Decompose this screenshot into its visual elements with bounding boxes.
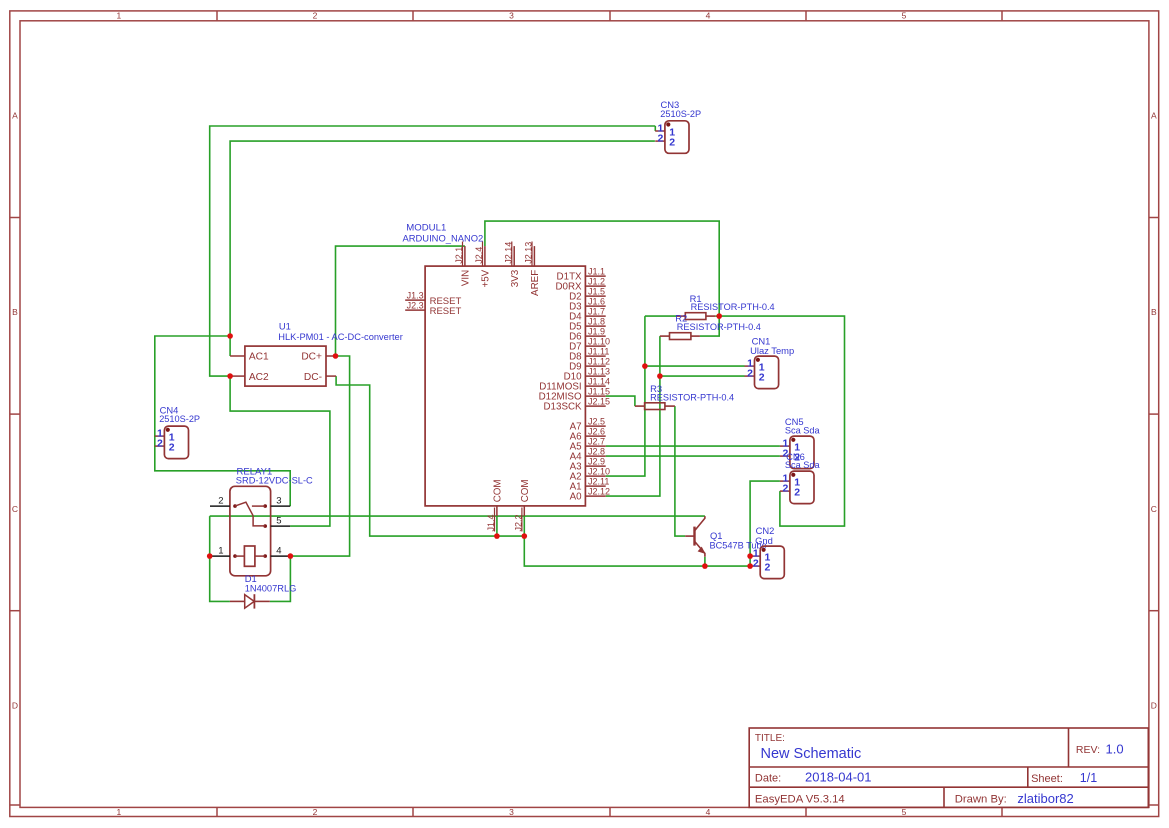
junction <box>227 373 233 379</box>
junction <box>716 313 722 319</box>
svg-text:4: 4 <box>706 807 711 817</box>
svg-text:1: 1 <box>218 545 223 556</box>
connector CN2 Gnd <box>760 546 784 579</box>
wire R1 node to CN6.2 <box>719 316 844 526</box>
svg-text:2510S-2P: 2510S-2P <box>660 109 701 119</box>
pin DC+ <box>326 355 336 357</box>
pin J2.13 AREF <box>533 246 535 266</box>
pin J2.1 VIN <box>464 246 466 266</box>
svg-text:J2.2: J2.2 <box>514 514 524 531</box>
pin DC- <box>326 375 336 377</box>
svg-text:RESISTOR-PTH-0.4: RESISTOR-PTH-0.4 <box>691 302 775 312</box>
pin J2.2 COM <box>523 506 525 516</box>
pin J1.2 D0RX <box>585 285 605 287</box>
svg-text:2: 2 <box>759 371 765 383</box>
junction <box>702 563 708 569</box>
svg-text:RESISTOR-PTH-0.4: RESISTOR-PTH-0.4 <box>650 392 734 402</box>
svg-text:J1.9: J1.9 <box>588 327 605 337</box>
svg-text:J1.13: J1.13 <box>588 367 610 377</box>
svg-text:J1.12: J1.12 <box>588 357 610 367</box>
junction <box>333 353 339 359</box>
svg-text:1: 1 <box>117 10 122 20</box>
svg-text:Drawn By:: Drawn By: <box>955 794 1007 806</box>
junction <box>642 363 648 369</box>
svg-text:RESISTOR-PTH-0.4: RESISTOR-PTH-0.4 <box>677 322 761 332</box>
svg-text:TITLE:: TITLE: <box>755 733 785 744</box>
svg-text:RESET: RESET <box>430 306 462 317</box>
svg-text:J2.6: J2.6 <box>588 427 605 437</box>
wire VIN to DC+ <box>336 246 465 356</box>
svg-text:2: 2 <box>218 495 223 506</box>
connector CN5 Sca Sda <box>790 436 814 469</box>
pin J1.7 D4 <box>585 315 605 317</box>
pin J1.3 RESET <box>405 299 425 301</box>
svg-text:2: 2 <box>669 136 675 148</box>
pin J2.7 A5 <box>585 445 605 447</box>
svg-text:VIN: VIN <box>461 270 472 286</box>
relay coil <box>233 554 237 558</box>
svg-text:2: 2 <box>783 483 789 495</box>
svg-text:2: 2 <box>313 10 318 20</box>
relay pin 2 <box>210 505 230 507</box>
pin J2.8 A4 <box>585 455 605 457</box>
connector CN6 Sca Sda <box>790 471 814 504</box>
svg-text:zlatibor82: zlatibor82 <box>1017 791 1073 806</box>
svg-text:1N4007RLG: 1N4007RLG <box>245 583 297 593</box>
svg-text:A: A <box>1151 111 1157 121</box>
op-amp U? none: module MODUL1 ARDUINO_NANO2 body <box>425 266 585 506</box>
wire COM J2.2 drop <box>523 516 525 536</box>
svg-text:J1.11: J1.11 <box>588 347 609 357</box>
pin J1.11 D8 <box>585 355 605 357</box>
svg-text:J1.8: J1.8 <box>588 317 605 327</box>
pin J2.12 A0 <box>585 495 605 497</box>
relay pin 1 <box>210 555 230 557</box>
wire A4 to CN5.2 <box>606 455 780 457</box>
svg-text:J2.13: J2.13 <box>524 242 534 264</box>
svg-text:Gnd: Gnd <box>755 535 773 546</box>
pin J1.8 D5 <box>585 325 605 327</box>
wire A0 riser to R2 left <box>606 336 660 496</box>
wire CN1.2 <box>660 375 745 377</box>
wire R3 to Q1 base <box>675 406 685 536</box>
svg-text:J1.7: J1.7 <box>588 307 605 317</box>
resistor R3 <box>635 405 645 407</box>
junction <box>207 553 213 559</box>
svg-text:J1.6: J1.6 <box>588 297 605 307</box>
svg-text:D13SCK: D13SCK <box>543 402 582 413</box>
svg-text:A0: A0 <box>570 492 583 503</box>
relay pin 3 <box>271 505 291 507</box>
pin J2.6 A6 <box>585 435 605 437</box>
pin J1.15 D12MISO <box>585 395 605 397</box>
pin J1.10 D7 <box>585 345 605 347</box>
pin J2.15 D13SCK <box>585 405 605 407</box>
svg-text:Sca Sda: Sca Sda <box>785 425 821 435</box>
svg-text:B: B <box>12 307 18 317</box>
svg-text:J2.9: J2.9 <box>588 457 605 467</box>
svg-text:C: C <box>12 504 18 514</box>
svg-text:Date:: Date: <box>755 773 781 785</box>
wire down to D1 anode <box>210 516 230 601</box>
svg-text:2: 2 <box>313 807 318 817</box>
wire CN1.1 <box>645 365 745 367</box>
wire DC+ to relay pin4 <box>290 356 349 556</box>
title block <box>749 728 1148 807</box>
pin J1.1 D1TX <box>585 275 605 277</box>
svg-text:2: 2 <box>794 486 800 498</box>
svg-text:D: D <box>12 700 18 710</box>
wire node to AC1 <box>229 336 231 356</box>
pin J2.10 A2 <box>585 475 605 477</box>
svg-text:J1.1: J1.1 <box>588 267 605 277</box>
svg-text:4: 4 <box>706 10 711 20</box>
junction <box>494 533 500 539</box>
svg-text:2: 2 <box>157 438 163 450</box>
wire gnd rail to CN2.2 <box>524 536 750 566</box>
svg-text:2: 2 <box>169 441 175 453</box>
svg-text:1: 1 <box>117 807 122 817</box>
wire AC2 node to relay pin5 <box>230 376 330 526</box>
svg-text:J1.3: J1.3 <box>407 291 424 301</box>
svg-text:DC-: DC- <box>304 372 322 383</box>
wire relay pin1 to Q1 collector <box>210 515 705 517</box>
resistor R2 <box>660 335 670 337</box>
transistor Q1 BC547B <box>685 535 693 537</box>
svg-text:2018-04-01: 2018-04-01 <box>805 770 872 785</box>
connector CN3 2510S-2P <box>665 121 689 154</box>
svg-text:5: 5 <box>276 515 281 526</box>
svg-text:J1.2: J1.2 <box>588 277 605 287</box>
junction <box>522 533 528 539</box>
svg-text:AREF: AREF <box>530 270 541 296</box>
svg-text:COM: COM <box>520 479 531 502</box>
svg-text:J2.14: J2.14 <box>503 242 513 264</box>
svg-text:J2.5: J2.5 <box>588 417 605 427</box>
pin J1.13 D10 <box>585 375 605 377</box>
junction <box>288 553 294 559</box>
svg-text:B: B <box>1151 307 1157 317</box>
wire node to relay pin3 <box>155 336 290 506</box>
svg-text:2: 2 <box>747 368 753 380</box>
wire R1 lead to node <box>715 315 719 317</box>
wire R2 right to R1 node <box>700 316 719 336</box>
pin J1.12 D9 <box>585 365 605 367</box>
svg-text:J1.4: J1.4 <box>486 514 496 531</box>
svg-text:1/1: 1/1 <box>1080 771 1097 785</box>
pin AC2 <box>230 375 245 377</box>
svg-text:A: A <box>12 111 18 121</box>
svg-text:AC2: AC2 <box>249 372 269 383</box>
pin J1.5 D2 <box>585 295 605 297</box>
svg-text:J2.1: J2.1 <box>454 247 464 264</box>
svg-text:J1.10: J1.10 <box>588 337 610 347</box>
wire A2 riser <box>606 316 645 476</box>
wire +5V to R1 right <box>485 221 719 316</box>
pin J2.3 RESET <box>405 309 425 311</box>
resistor R1 <box>676 315 685 317</box>
wire D1 cathode to relay pin4 <box>270 556 291 601</box>
wire DC- to COM gnd rail <box>336 376 524 536</box>
svg-text:New Schematic: New Schematic <box>761 746 862 762</box>
svg-text:J1.15: J1.15 <box>588 387 610 397</box>
svg-text:Ulaz Temp: Ulaz Temp <box>750 345 794 356</box>
pin J2.9 A3 <box>585 465 605 467</box>
svg-text:U1: U1 <box>279 320 291 331</box>
wire CN3.1 to AC2 <box>210 126 656 376</box>
svg-text:J2.8: J2.8 <box>588 447 605 457</box>
svg-text:SRD-12VDC-SL-C: SRD-12VDC-SL-C <box>236 476 313 486</box>
svg-text:Sheet:: Sheet: <box>1031 773 1063 785</box>
svg-text:J2.3: J2.3 <box>407 301 424 311</box>
wire R1 left <box>645 315 676 317</box>
svg-text:EasyEDA V5.3.14: EasyEDA V5.3.14 <box>755 793 845 805</box>
svg-text:ARDUINO_NANO2: ARDUINO_NANO2 <box>403 232 484 243</box>
connector CN4 2510S-2P <box>164 426 188 459</box>
svg-text:C: C <box>1151 504 1157 514</box>
relay switch contacts <box>233 504 237 508</box>
svg-text:3: 3 <box>509 807 514 817</box>
svg-text:3V3: 3V3 <box>510 269 521 287</box>
pin J1.9 D6 <box>585 335 605 337</box>
svg-text:J1.5: J1.5 <box>588 287 605 297</box>
svg-text:2: 2 <box>765 561 771 573</box>
wire D12MISO to R3 <box>606 396 635 406</box>
relay pin 4 <box>271 555 291 557</box>
pin J1.6 D3 <box>585 305 605 307</box>
svg-text:2510S-2P: 2510S-2P <box>159 414 200 424</box>
junction <box>227 333 233 339</box>
diode D1 1N4007RLG <box>230 600 245 602</box>
svg-text:AC1: AC1 <box>249 352 269 363</box>
pin J1.14 D11MOSI <box>585 385 605 387</box>
svg-text:J1.14: J1.14 <box>588 377 610 387</box>
svg-text:HLK-PM01 - AC-DC-converter: HLK-PM01 - AC-DC-converter <box>278 332 403 342</box>
junction <box>657 373 663 379</box>
pin AC1 <box>230 355 245 357</box>
svg-text:1.0: 1.0 <box>1106 742 1124 757</box>
wire jog at CN3 pin1 <box>654 126 656 131</box>
pin J2.14 3V3 <box>513 246 515 266</box>
wire COM J1.4 drop <box>496 516 498 536</box>
svg-text:J2.4: J2.4 <box>474 247 484 264</box>
svg-text:5: 5 <box>902 10 907 20</box>
svg-text:J2.12: J2.12 <box>588 487 610 497</box>
svg-text:DC+: DC+ <box>301 352 322 363</box>
pin J2.11 A1 <box>585 485 605 487</box>
svg-text:D: D <box>1151 700 1157 710</box>
relay RELAY1 SRD-12VDC-SL-C body <box>230 486 271 576</box>
junction <box>747 553 753 559</box>
svg-text:3: 3 <box>509 10 514 20</box>
svg-text:+5V: +5V <box>481 269 492 287</box>
pin J1.4 COM <box>496 506 498 516</box>
svg-text:4: 4 <box>276 545 281 556</box>
svg-text:COM: COM <box>493 479 504 502</box>
wire Q1 emitter to gnd rail <box>704 557 706 566</box>
svg-text:Q1: Q1 <box>710 530 723 541</box>
junction <box>747 563 753 569</box>
svg-text:Sca Sda: Sca Sda <box>785 460 821 470</box>
svg-text:J2.10: J2.10 <box>588 467 610 477</box>
converter U1 HLK-PM01 body <box>245 346 326 386</box>
svg-text:J2.11: J2.11 <box>588 477 609 487</box>
pin J2.5 A7 <box>585 425 605 427</box>
svg-text:J2.15: J2.15 <box>588 397 610 407</box>
svg-text:5: 5 <box>902 807 907 817</box>
svg-text:3: 3 <box>276 495 281 506</box>
svg-text:REV:: REV: <box>1076 744 1100 756</box>
svg-text:2: 2 <box>753 558 759 570</box>
wire CN3.2 down to node <box>230 141 655 336</box>
pin J2.4 +5V <box>484 246 486 266</box>
wire A5 to CN5.1 <box>606 445 780 447</box>
svg-text:J2.7: J2.7 <box>588 437 605 447</box>
connector CN1 Ulaz Temp <box>755 356 779 389</box>
wire CN6.1 to CN2.1 <box>750 481 780 566</box>
svg-text:2: 2 <box>658 133 664 145</box>
relay pin 5 <box>271 525 291 527</box>
